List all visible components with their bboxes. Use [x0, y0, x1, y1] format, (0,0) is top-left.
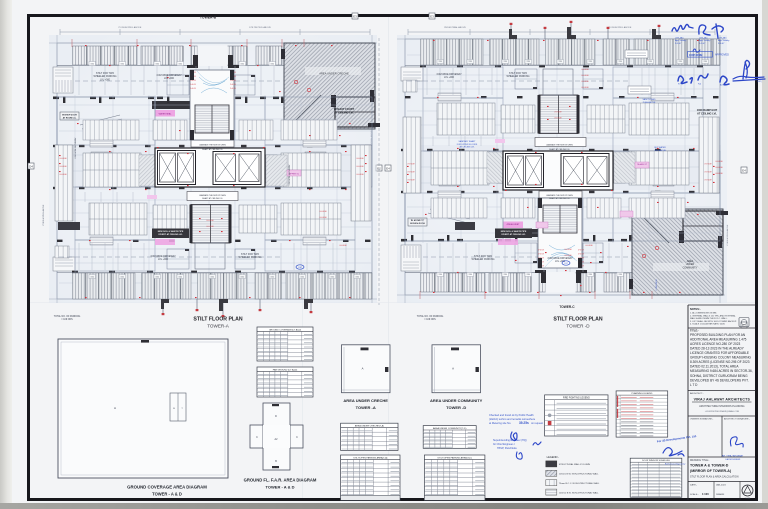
svg-text:DIVERT AT CEILING LVL: DIVERT AT CEILING LVL: [158, 233, 183, 236]
svg-text:APPROVED: APPROVED: [715, 54, 729, 57]
svg-text:PROPOSED BUILDING PLAN FOR AN: PROPOSED BUILDING PLAN FOR AN: [690, 333, 746, 337]
svg-text:D4: D4: [29, 164, 33, 168]
svg-text:FAR GROUND (CT A&D): FAR GROUND (CT A&D): [273, 368, 298, 371]
svg-text:NOTES:-: NOTES:-: [690, 307, 701, 311]
svg-text:A: A: [452, 367, 454, 371]
svg-text:MEASURING 9.684 ACRES IN SECTO: MEASURING 9.684 ACRES IN SECTOR-36,: [690, 369, 753, 373]
svg-text:TOWER -A: TOWER -A: [356, 405, 376, 410]
svg-text:1000 RAMP EXIT: 1000 RAMP EXIT: [697, 108, 718, 112]
svg-text:LVL +000: LVL +000: [164, 77, 175, 80]
svg-text:STILT/B PRJL ABOVE: STILT/B PRJL ABOVE: [249, 26, 271, 29]
svg-text:AT CEILING LVL: AT CEILING LVL: [697, 111, 717, 115]
svg-text:LTR-3B1: LTR-3B1: [718, 37, 727, 39]
svg-text:LAMINATE THE R/W KITCHEN: LAMINATE THE R/W KITCHEN: [199, 143, 226, 146]
svg-text:HSVP, Panchkula: HSVP, Panchkula: [497, 447, 517, 450]
svg-text:AREA UNDER CRECHE: AREA UNDER CRECHE: [319, 71, 349, 75]
svg-text:DEVELOPED BY 4S DEVELOPERS PVT: DEVELOPED BY 4S DEVELOPERS PVT.: [690, 378, 749, 382]
svg-text:4. SCALE 1:100 A3 FAR RATIO 2: 4. SCALE 1:100 A3 FAR RATIO 2008.: [690, 323, 725, 326]
svg-text:WALLS ARE 230MM THICK R.C. WAL: WALLS ARE 230MM THICK R.C. WALL.: [690, 317, 728, 320]
svg-text:0-0.006: 0-0.006: [581, 81, 589, 83]
svg-text:100mm B.W. NON-STRUCTURAL WALL: 100mm B.W. NON-STRUCTURAL WALL: [559, 491, 600, 494]
svg-text:0-0.006: 0-0.006: [564, 255, 572, 257]
svg-text:ARCHITECT:-: ARCHITECT:-: [690, 392, 704, 395]
svg-text:DATED 02.11.2013), TOTAL AREA: DATED 02.11.2013), TOTAL AREA: [690, 365, 739, 369]
svg-text:STILT FLOOR PLAN: STILT FLOOR PLAN: [553, 317, 602, 323]
svg-text:App Validity: App Validity: [699, 39, 711, 42]
svg-text:OWNERS SIGNATURE:-: OWNERS SIGNATURE:-: [690, 418, 713, 421]
svg-text:3. LIFT SHALL BE WITH 100% P: 3. LIFT SHALL BE WITH 100% POWER BACKUP.: [690, 320, 737, 323]
svg-text:0-0.006: 0-0.006: [581, 75, 589, 77]
svg-text:LTR-3B1: LTR-3B1: [675, 37, 684, 39]
svg-text:0-0.006: 0-0.006: [581, 87, 589, 89]
svg-text:WHEELER PARKING: WHEELER PARKING: [506, 75, 529, 78]
svg-text:LTR-3B1: LTR-3B1: [699, 37, 708, 39]
svg-text:L T D: L T D: [690, 383, 698, 387]
svg-text:0-0.006: 0-0.006: [564, 249, 572, 251]
svg-text:A: A: [362, 367, 364, 371]
svg-text:NEW SOIL & WASTE PIPE: NEW SOIL & WASTE PIPE: [158, 230, 184, 233]
svg-text:PODIUM PRJL ABOVE: PODIUM PRJL ABOVE: [42, 204, 45, 225]
svg-text:AREA UNDER CRECHE(T-A): AREA UNDER CRECHE(T-A): [355, 425, 384, 428]
svg-text:PODIUM PRJL ABOVE: PODIUM PRJL ABOVE: [609, 26, 632, 29]
svg-text:AREA UNDER CRECHE: AREA UNDER CRECHE: [343, 398, 388, 403]
svg-text:LINE ABOVE: LINE ABOVE: [654, 149, 666, 152]
svg-text:AR. VIRAJ AHLAWAT: AR. VIRAJ AHLAWAT: [722, 455, 744, 458]
svg-text:TOWER -D: TOWER -D: [446, 405, 466, 410]
svg-text:NEW SOIL & WASTE PIPE: NEW SOIL & WASTE PIPE: [501, 230, 527, 233]
svg-text:= 109 NOS: = 109 NOS: [424, 319, 436, 321]
svg-text:3.0M WIDE DRIVEWAY: 3.0M WIDE DRIVEWAY: [288, 164, 291, 186]
svg-text:FIRE FIGHTING LEGEND: FIRE FIGHTING LEGEND: [563, 397, 590, 399]
svg-text:STILT/OPEN PARKING AREA(T-D): STILT/OPEN PARKING AREA(T-D): [437, 456, 472, 459]
svg-text:9-3-07: 9-3-07: [718, 43, 725, 45]
svg-text:9-3-07: 9-3-07: [699, 43, 706, 45]
svg-text:on request: on request: [531, 421, 543, 425]
svg-text:C: C: [256, 436, 258, 439]
svg-text:TOWER - A & D: TOWER - A & D: [152, 492, 182, 497]
svg-text:AT CEILING LVL: AT CEILING LVL: [460, 146, 476, 149]
svg-text:SANITARY SHAFT: SANITARY SHAFT: [459, 140, 477, 143]
svg-text:P.A.: P.A.: [698, 83, 702, 86]
svg-text:TOWER-A: TOWER-A: [207, 324, 230, 329]
svg-text:VIRAJ AHLAWAT ARCHITECTS: VIRAJ AHLAWAT ARCHITECTS: [694, 398, 751, 402]
svg-text:75mm R.C.C. NON-STRUCTURAL WAL: 75mm R.C.C. NON-STRUCTURAL WALL: [559, 482, 600, 485]
svg-text:COP-RRB: COP-RRB: [689, 53, 703, 57]
svg-text:SHAFT AT CEILING LVL: SHAFT AT CEILING LVL: [202, 148, 223, 151]
svg-text:LAMINATE THE R/W KITCHEN: LAMINATE THE R/W KITCHEN: [546, 194, 573, 197]
svg-text:DRAWING TITLE:-: DRAWING TITLE:-: [690, 459, 710, 462]
svg-text:TOWER -D: TOWER -D: [566, 324, 590, 329]
svg-text:DATED 28-12-2023 IN THE ALREAD: DATED 28-12-2023 IN THE ALREADY: [690, 346, 745, 350]
svg-text:TOWER-C: TOWER-C: [559, 305, 575, 309]
svg-text:SCALE:-: SCALE:-: [690, 493, 699, 496]
svg-text:CA/2015/69849: CA/2015/69849: [725, 458, 741, 461]
svg-text:LEGEND:-: LEGEND:-: [547, 455, 559, 459]
svg-text:39.25s: 39.25s: [519, 421, 529, 425]
svg-text:LAMINATE THE R/W KITCHEN: LAMINATE THE R/W KITCHEN: [546, 143, 573, 146]
svg-text:PODIUM PRJL ABOVE: PODIUM PRJL ABOVE: [119, 26, 142, 29]
svg-text:PLANNING LEGEND: PLANNING LEGEND: [632, 392, 653, 395]
svg-text:ARCHITECT SIGNATURE:-: ARCHITECT SIGNATURE:-: [724, 418, 750, 421]
svg-text:DOOR WINDOW SCHEDULE: DOOR WINDOW SCHEDULE: [642, 460, 670, 462]
svg-text:3 LINE MM W: 3 LINE MM W: [656, 279, 658, 290]
svg-text:TOWER-B: TOWER-B: [200, 16, 217, 20]
svg-text:Authorised Signatory: Authorised Signatory: [665, 463, 686, 466]
svg-text:TOWER - A & D: TOWER - A & D: [266, 485, 295, 490]
svg-text:GROUP HOUSING COLONY MEASURING: GROUP HOUSING COLONY MEASURING: [690, 356, 752, 360]
svg-text:0-0.006: 0-0.006: [581, 69, 589, 71]
svg-text:AREA UNDER COMMUNITY(T-D): AREA UNDER COMMUNITY(T-D): [433, 427, 467, 430]
svg-text:1:100: 1:100: [702, 492, 709, 496]
svg-text:SOHNA, DISTRICT GURUGRAM BEING: SOHNA, DISTRICT GURUGRAM BEING: [690, 374, 748, 378]
svg-text:SANCTIONED: SANCTIONED: [642, 98, 656, 101]
svg-text:LICENCE GRANTED FOR AFFORDABLE: LICENCE GRANTED FOR AFFORDABLE: [690, 351, 749, 355]
svg-text:2. INTERNAL WALLS 115 THK. AN: 2. INTERNAL WALLS 115 THK. AND EXTERNAL: [690, 314, 736, 317]
svg-text:(LMO): (LMO): [757, 81, 762, 83]
svg-text:App Validity: App Validity: [675, 39, 687, 42]
svg-text:PEDESTRIAL ABOVE: PEDESTRIAL ABOVE: [444, 26, 466, 29]
svg-text:LAMINATE THE R/W KITCHEN: LAMINATE THE R/W KITCHEN: [199, 194, 226, 197]
svg-text:STILT FLOOR PLAN: STILT FLOOR PLAN: [193, 317, 242, 323]
svg-text:0-0.006: 0-0.006: [339, 245, 347, 247]
svg-text:115mm B.W. NON-STRUCTURAL WALL: 115mm B.W. NON-STRUCTURAL WALL: [559, 473, 599, 476]
svg-text:8.309 ACRES (LICENSE NO.295 OF: 8.309 ACRES (LICENSE NO.295 OF 2023: [690, 360, 750, 364]
svg-text:LVL +000: LVL +000: [158, 258, 169, 261]
svg-text:ADDITIONAL AREA MEASURING 1.47: ADDITIONAL AREA MEASURING 1.475: [690, 337, 747, 341]
svg-text:at Metering site No.: at Metering site No.: [489, 421, 511, 425]
svg-text:0-0.006: 0-0.006: [715, 173, 723, 175]
svg-text:0-0.006: 0-0.006: [319, 211, 327, 213]
svg-text:9-3-07: 9-3-07: [675, 43, 682, 45]
svg-text:STILT/OPEN PARKING AREA(T-A): STILT/OPEN PARKING AREA(T-A): [353, 456, 387, 459]
svg-text:ALTD: ALTD: [720, 84, 725, 87]
svg-text:JAN-2024: JAN-2024: [716, 484, 727, 487]
svg-text:D: D: [275, 415, 277, 418]
svg-text:= 109 NOS: = 109 NOS: [61, 319, 73, 321]
svg-text:STRUCTURAL WALL/COLUMN: STRUCTURAL WALL/COLUMN: [559, 463, 591, 466]
svg-text:+91-9811107930 VIRAJJI@GMAIL.: +91-9811107930 VIRAJJI@GMAIL.COM: [705, 410, 740, 413]
svg-text:STILT FLOOR PLAN & AREA CALC: STILT FLOOR PLAN & AREA CALCULATION: [690, 475, 739, 478]
svg-text:SKY WATER: SKY WATER: [654, 146, 666, 149]
svg-text:1. ALL DIMENSIONS IN MM.: 1. ALL DIMENSIONS IN MM.: [690, 312, 717, 315]
svg-text:2.0M WIDE DRIVEWAY: 2.0M WIDE DRIVEWAY: [74, 137, 77, 159]
svg-text:TOTAL NO. OF PARKING: TOTAL NO. OF PARKING: [54, 315, 81, 318]
svg-text:for Chief Engineer-I: for Chief Engineer-I: [493, 443, 515, 446]
svg-text:PLAN ABOVE: PLAN ABOVE: [643, 101, 656, 104]
svg-text:TOTAL NO. OF PARKING: TOTAL NO. OF PARKING: [417, 315, 444, 318]
svg-text:FOR UPPER FLOORS: FOR UPPER FLOORS: [457, 144, 478, 146]
svg-text:TITLE:-: TITLE:-: [690, 328, 699, 332]
svg-text:GROUND FL. F.A.R. AREA DIAGRAM: GROUND FL. F.A.R. AREA DIAGRAM: [244, 478, 317, 483]
svg-text:AREA UNDER COMMUNITY: AREA UNDER COMMUNITY: [430, 398, 483, 403]
svg-text:App Validity: App Validity: [718, 39, 730, 42]
svg-text:Superintending Engineer (HQ): Superintending Engineer (HQ): [493, 439, 527, 442]
svg-text:0-0.006: 0-0.006: [715, 167, 723, 169]
svg-text:GROUND COVERAGE(CT A&D): GROUND COVERAGE(CT A&D): [269, 328, 301, 331]
svg-text:SHAFT AT CEILING LVL: SHAFT AT CEILING LVL: [549, 148, 570, 151]
svg-text:E4: E4: [742, 168, 746, 172]
svg-text:LVL +000: LVL +000: [444, 76, 455, 79]
svg-text:0-0.006: 0-0.006: [585, 245, 593, 247]
svg-text:C: C: [296, 436, 298, 439]
svg-text:E3: E3: [430, 14, 434, 18]
svg-text:DRAWN: DRAWN: [716, 493, 725, 496]
svg-text:E4: E4: [386, 166, 390, 170]
svg-text:DATE:-: DATE:-: [690, 484, 697, 487]
svg-text:W/SHOP COURT: W/SHOP COURT: [334, 107, 355, 111]
svg-text:SHAFT AT CEILING LVL: SHAFT AT CEILING LVL: [549, 197, 570, 200]
svg-text:ACRES LICENCE NO-280 OF 2023: ACRES LICENCE NO-280 OF 2023: [690, 342, 741, 346]
svg-text:0-0.006: 0-0.006: [319, 217, 327, 219]
svg-text:0-0.006: 0-0.006: [715, 161, 723, 163]
svg-text:TOWER A & TOWER-D: TOWER A & TOWER-D: [690, 464, 729, 468]
svg-text:SHAFT AT CEILING LVL: SHAFT AT CEILING LVL: [202, 197, 223, 200]
svg-text:GROUND COVERAGE AREA DIAGRAM: GROUND COVERAGE AREA DIAGRAM: [127, 485, 207, 490]
svg-text:(MIRROR OF TOWER-A): (MIRROR OF TOWER-A): [690, 469, 732, 473]
svg-text:Checked and found ok by Public: Checked and found ok by Public Health: [489, 413, 534, 417]
svg-text:A: A: [114, 406, 116, 410]
svg-text:LVL +000: LVL +000: [100, 78, 111, 81]
svg-text:ARCHITECTURE INTERIORS PLANN: ARCHITECTURE INTERIORS PLANNING: [699, 405, 744, 408]
svg-text:COMMUNITY: COMMUNITY: [683, 266, 698, 269]
svg-text:DIVERT AT CEILING LVL: DIVERT AT CEILING LVL: [501, 233, 526, 236]
svg-text:1-AAA: 1-AAA: [745, 497, 751, 500]
svg-text:AT CEILING LVL: AT CEILING LVL: [334, 110, 354, 114]
svg-text:WHEELER PARKING: WHEELER PARKING: [238, 256, 261, 259]
svg-text:WHEELER PARKING: WHEELER PARKING: [471, 258, 494, 261]
svg-text:E3: E3: [353, 14, 357, 18]
